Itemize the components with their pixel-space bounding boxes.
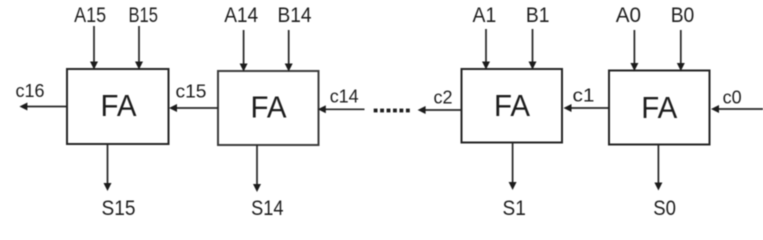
svg-text:A0: A0 [616, 3, 641, 27]
svg-text:S15: S15 [102, 196, 136, 218]
svg-text:A15: A15 [74, 3, 106, 27]
svg-text:S1: S1 [503, 196, 526, 218]
svg-text:c16: c16 [16, 81, 45, 101]
svg-text:FA: FA [251, 90, 288, 124]
svg-text:c0: c0 [723, 88, 742, 108]
svg-text:FA: FA [641, 91, 678, 125]
svg-text:c14: c14 [330, 87, 359, 107]
svg-text:A14: A14 [224, 3, 258, 27]
svg-text:A1: A1 [473, 3, 497, 27]
svg-text:c2: c2 [434, 88, 453, 108]
svg-text:c1: c1 [573, 86, 595, 106]
svg-text:S0: S0 [653, 196, 676, 218]
svg-text:B0: B0 [671, 3, 695, 27]
svg-text:c15: c15 [176, 82, 207, 102]
svg-text:B1: B1 [526, 3, 550, 27]
svg-text:B15: B15 [128, 3, 158, 27]
svg-text:S14: S14 [251, 196, 283, 218]
svg-text:FA: FA [494, 89, 531, 123]
svg-text:FA: FA [101, 89, 138, 123]
svg-text:B14: B14 [278, 3, 312, 27]
